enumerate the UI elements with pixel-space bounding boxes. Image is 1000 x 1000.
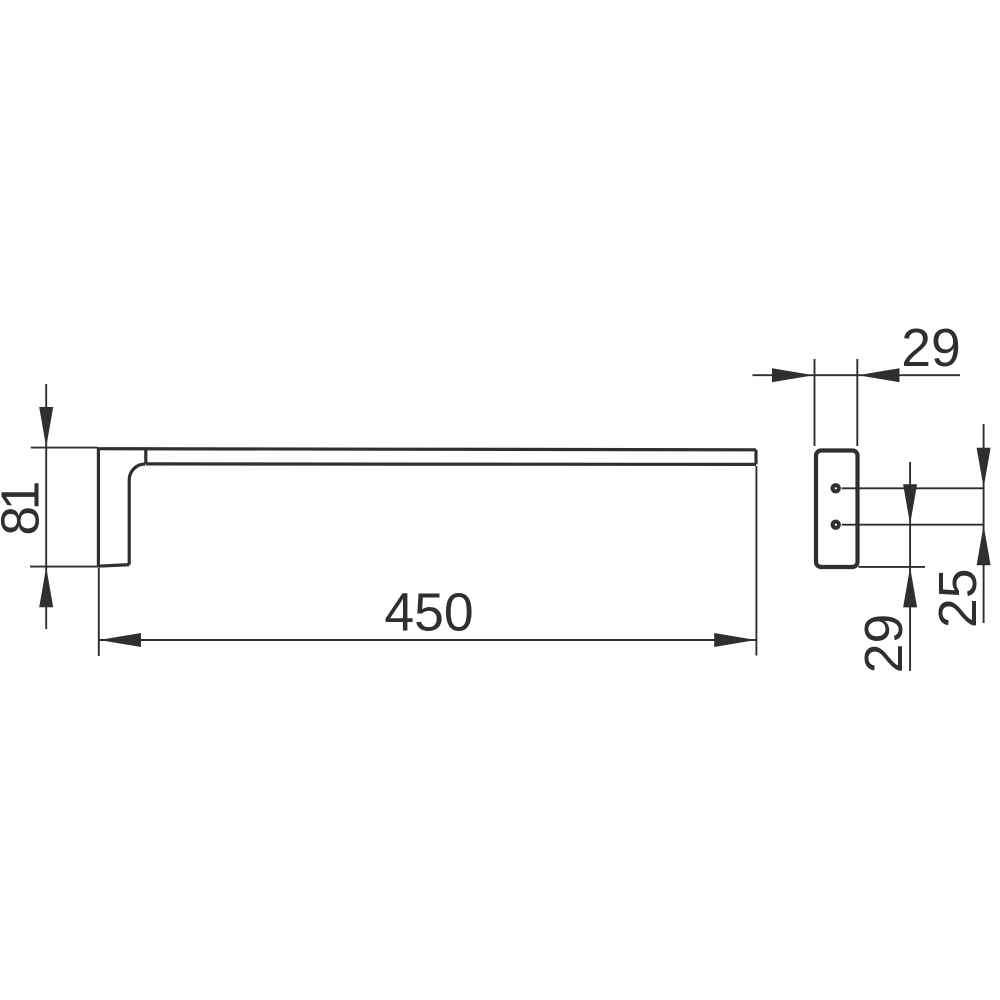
svg-text:1: 1	[0, 481, 50, 511]
side view: bracket left edge	[97, 448, 100, 567]
side view: bar top edge	[98, 449, 757, 450]
side view: bar right end cap	[754, 450, 757, 465]
dim 29 vertical: dimension line	[909, 462, 911, 671]
dim 25: lower arrow	[977, 525, 991, 565]
dim 450: right arrow	[714, 633, 756, 647]
dim 29 width: right extension line	[856, 359, 858, 446]
dim 81: upper extension line	[31, 447, 98, 449]
dim 81: vertical dimension line	[45, 384, 47, 629]
side view: step between bracket and bar	[144, 449, 147, 464]
screw hole upper	[831, 483, 841, 493]
svg-text:29: 29	[901, 319, 961, 378]
side view: bar bottom edge	[146, 462, 756, 466]
dim 450: left extension line	[98, 568, 100, 656]
svg-text:29: 29	[855, 614, 914, 674]
dim 450: dimension line	[99, 639, 757, 641]
lower hole center line	[842, 524, 985, 526]
dim 25: dimension line	[983, 424, 985, 623]
dim 81: lower extension line	[30, 566, 98, 568]
side view: bracket bottom edge	[98, 565, 130, 567]
dim 25: upper arrow	[977, 448, 991, 488]
svg-text:25: 25	[929, 569, 988, 629]
dim 29 width: left arrow	[772, 368, 814, 382]
dim 29 width: dimension line	[753, 374, 961, 376]
dim 81: lower arrow	[39, 567, 53, 607]
dim 29 vertical: upper arrow	[903, 484, 917, 524]
end view: mounting plate rectangle	[816, 451, 858, 568]
side view: bracket inner profile with corner radius	[129, 464, 145, 565]
dim 29 vertical: lower arrow	[903, 567, 917, 607]
dim 29 width: right arrow	[858, 368, 900, 382]
upper hole center line	[842, 487, 985, 489]
plate bottom extension line	[859, 566, 926, 568]
dim 450: right extension line	[755, 466, 757, 656]
dim 81: upper arrow	[39, 407, 53, 447]
screw hole lower	[831, 520, 841, 530]
svg-text:450: 450	[384, 584, 473, 643]
dim 450: left arrow	[99, 633, 141, 647]
dim 29 width: left extension line	[814, 359, 816, 446]
